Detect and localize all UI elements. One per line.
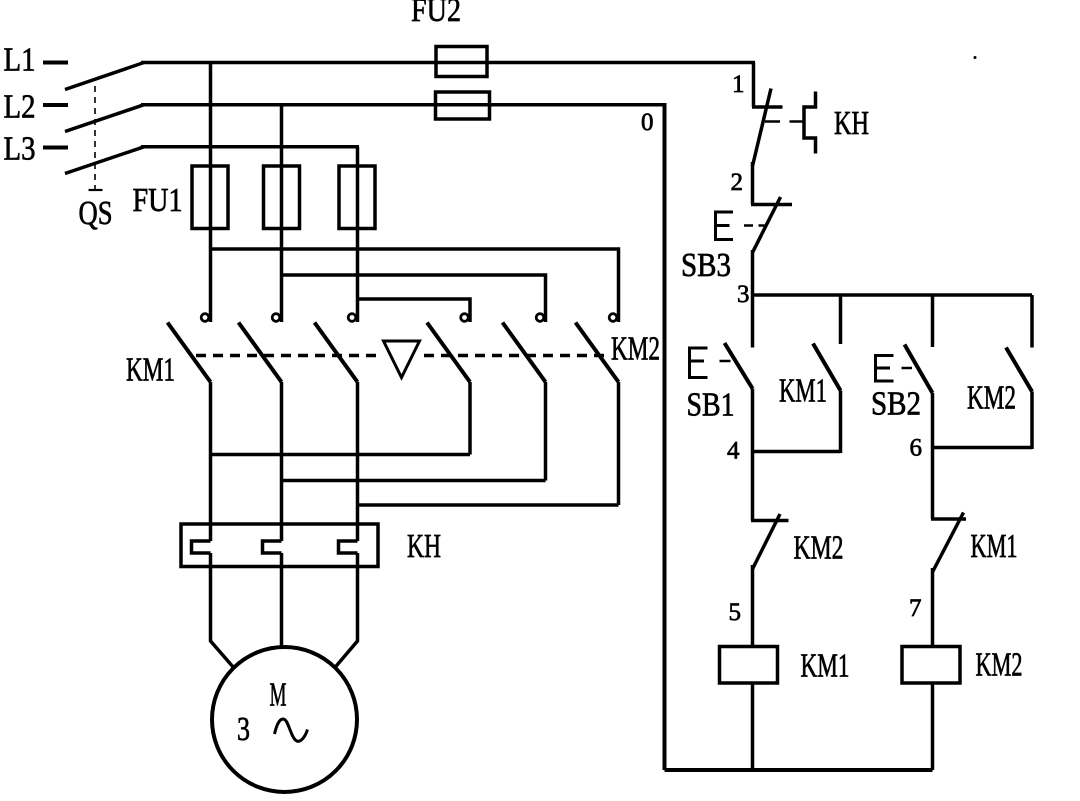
motor M circle bbox=[212, 647, 357, 792]
wire L1 to KH contact bbox=[752, 63, 756, 108]
switch QS blade phase L1 bbox=[65, 63, 144, 90]
fuse FU1 element 2 bbox=[264, 166, 300, 229]
svg-text:KM2: KM2 bbox=[976, 647, 1023, 684]
svg-text:KH: KH bbox=[834, 105, 869, 142]
wire KM1 coil bottom bbox=[751, 685, 755, 771]
contactor KM1 aux contact blade bbox=[813, 344, 841, 391]
svg-text:L1: L1 bbox=[4, 42, 36, 79]
svg-text:L3: L3 bbox=[4, 131, 36, 168]
fuse FU1 element 1 bbox=[192, 166, 228, 229]
wire phase2 drop bbox=[280, 105, 284, 322]
wire phase3 drop bbox=[356, 147, 360, 322]
button SB1 actuator E bbox=[690, 348, 708, 378]
wire node 7 bbox=[931, 568, 935, 645]
svg-text:KH: KH bbox=[407, 528, 441, 565]
wire motor lead 3 bbox=[335, 553, 358, 668]
wire node 4 link bbox=[753, 450, 841, 454]
wire node 3 rail bbox=[753, 293, 1033, 297]
wire KM2 aux branch top bbox=[1030, 295, 1034, 348]
svg-text:5: 5 bbox=[729, 599, 742, 626]
stray dot bbox=[974, 56, 977, 59]
coil KM1 bbox=[720, 647, 778, 684]
svg-text:SB3: SB3 bbox=[681, 247, 731, 284]
interlock KM2 NC bar bbox=[751, 519, 789, 523]
svg-text:KM1: KM1 bbox=[779, 373, 827, 410]
KM2 linkage dashed right bbox=[424, 354, 609, 358]
KH heater element 1 bbox=[192, 541, 211, 553]
wire L2 bus bbox=[141, 103, 667, 107]
svg-text:KM1: KM1 bbox=[971, 528, 1018, 565]
wire cross link phase2 bbox=[282, 479, 546, 483]
KH trip linkage dashes bbox=[765, 120, 804, 123]
KH heater element 2 bbox=[263, 541, 282, 553]
interlock KM1 NC bar bbox=[931, 517, 966, 521]
SB2 linkage dash bbox=[902, 367, 913, 370]
fuse FU2 element 1 bbox=[436, 47, 487, 77]
thermal relay KH box bbox=[181, 524, 378, 567]
switch QS blade phase L3 bbox=[65, 147, 144, 174]
wire phase1 drop bbox=[209, 63, 213, 323]
button SB3 blade bbox=[753, 197, 781, 253]
svg-text:KM2: KM2 bbox=[794, 530, 844, 567]
svg-text:FU1: FU1 bbox=[133, 182, 183, 219]
KH trip symbol bbox=[804, 92, 816, 154]
contactor KM2 main contact 1 bbox=[427, 314, 470, 455]
button SB1 blade bbox=[725, 343, 753, 389]
contactor KM1 main contact 1 bbox=[168, 314, 211, 541]
wire SB2 branch top bbox=[931, 295, 935, 347]
svg-text:M: M bbox=[270, 677, 287, 714]
wire cross link phase1 bbox=[211, 453, 471, 457]
svg-text:KM1: KM1 bbox=[126, 352, 175, 389]
delta symbol bbox=[384, 341, 420, 378]
svg-text:3: 3 bbox=[237, 711, 250, 748]
svg-text:SB1: SB1 bbox=[687, 387, 735, 424]
wire tap phase3 to KM2 bbox=[358, 299, 471, 322]
switch QS linkage dashed bbox=[94, 86, 96, 189]
wire cross link phase3 bbox=[358, 503, 619, 507]
wire SB1 to node 4 bbox=[751, 389, 755, 521]
SB1 linkage dash bbox=[720, 360, 731, 363]
contactor KM2 main contact 3 bbox=[576, 314, 619, 505]
svg-text:KM2: KM2 bbox=[611, 331, 660, 368]
svg-text:2: 2 bbox=[731, 169, 744, 196]
wire tap phase2 to KM2 bbox=[282, 275, 546, 322]
contactor KM1 main contact 3 bbox=[315, 314, 358, 541]
wire SB2 to node 6 bbox=[931, 393, 935, 519]
thermal relay KH NC contact blade bbox=[753, 89, 772, 167]
wire neutral rail vertical bbox=[663, 105, 667, 770]
switch QS linkage bar bbox=[89, 189, 103, 191]
motor AC tilde bbox=[275, 719, 308, 741]
button SB2 blade bbox=[905, 345, 933, 394]
wire KM2 aux bottom bbox=[1030, 392, 1034, 450]
wire SB1 branch top bbox=[751, 295, 755, 348]
coil KM2 bbox=[902, 647, 960, 684]
wire KM2 coil bottom bbox=[931, 685, 935, 771]
svg-text:1: 1 bbox=[732, 71, 745, 98]
contactor KM1 main contact 2 bbox=[239, 314, 282, 541]
svg-text:3: 3 bbox=[737, 281, 750, 308]
contactor KM2 main contact 2 bbox=[503, 314, 546, 481]
interlock KM1 NC blade bbox=[933, 513, 964, 573]
wire motor lead 1 bbox=[211, 553, 235, 668]
svg-text:FU2: FU2 bbox=[411, 0, 461, 29]
wire motor lead 2 bbox=[280, 553, 284, 648]
svg-text:KM1: KM1 bbox=[801, 648, 850, 685]
wire L3 bus bbox=[141, 145, 359, 149]
svg-text:L2: L2 bbox=[4, 89, 36, 126]
KM1 linkage dashed left bbox=[196, 354, 379, 358]
button SB2 actuator E bbox=[876, 356, 894, 382]
wire bottom rail bbox=[665, 768, 933, 772]
wire KM1 aux branch top bbox=[839, 295, 843, 344]
button SB3 actuator E bbox=[716, 212, 734, 240]
wire node 2 bbox=[751, 162, 755, 205]
svg-text:SB2: SB2 bbox=[871, 386, 921, 423]
switch QS blade phase L2 bbox=[65, 105, 144, 132]
thermal relay KH NC contact bar bbox=[752, 105, 783, 109]
wire KM1 aux bottom bbox=[839, 391, 843, 454]
svg-text:6: 6 bbox=[910, 435, 923, 462]
wire L1 bus bbox=[141, 61, 755, 65]
L2 terminal stub bbox=[43, 103, 68, 107]
L1 terminal stub bbox=[43, 61, 68, 65]
contactor KM2 aux contact blade bbox=[1006, 348, 1032, 392]
svg-text:7: 7 bbox=[909, 595, 922, 622]
wire tap phase1 to KM2 bbox=[211, 249, 619, 322]
wire node 2 to 3 bbox=[751, 250, 755, 295]
wire node 6 link bbox=[933, 446, 1033, 450]
svg-text:KM2: KM2 bbox=[967, 380, 1016, 417]
KH heater element 3 bbox=[339, 541, 358, 553]
svg-text:4: 4 bbox=[727, 438, 740, 465]
SB3 linkage dashes bbox=[744, 224, 765, 227]
interlock KM2 NC blade bbox=[753, 514, 781, 569]
button SB3 bar bbox=[751, 203, 792, 207]
wire node 5 bbox=[751, 565, 755, 645]
L3 terminal stub bbox=[43, 146, 68, 150]
fuse FU1 element 3 bbox=[339, 166, 375, 229]
svg-text:0: 0 bbox=[641, 109, 654, 136]
fuse FU2 element 2 bbox=[436, 92, 490, 119]
svg-text:QS: QS bbox=[79, 195, 113, 232]
